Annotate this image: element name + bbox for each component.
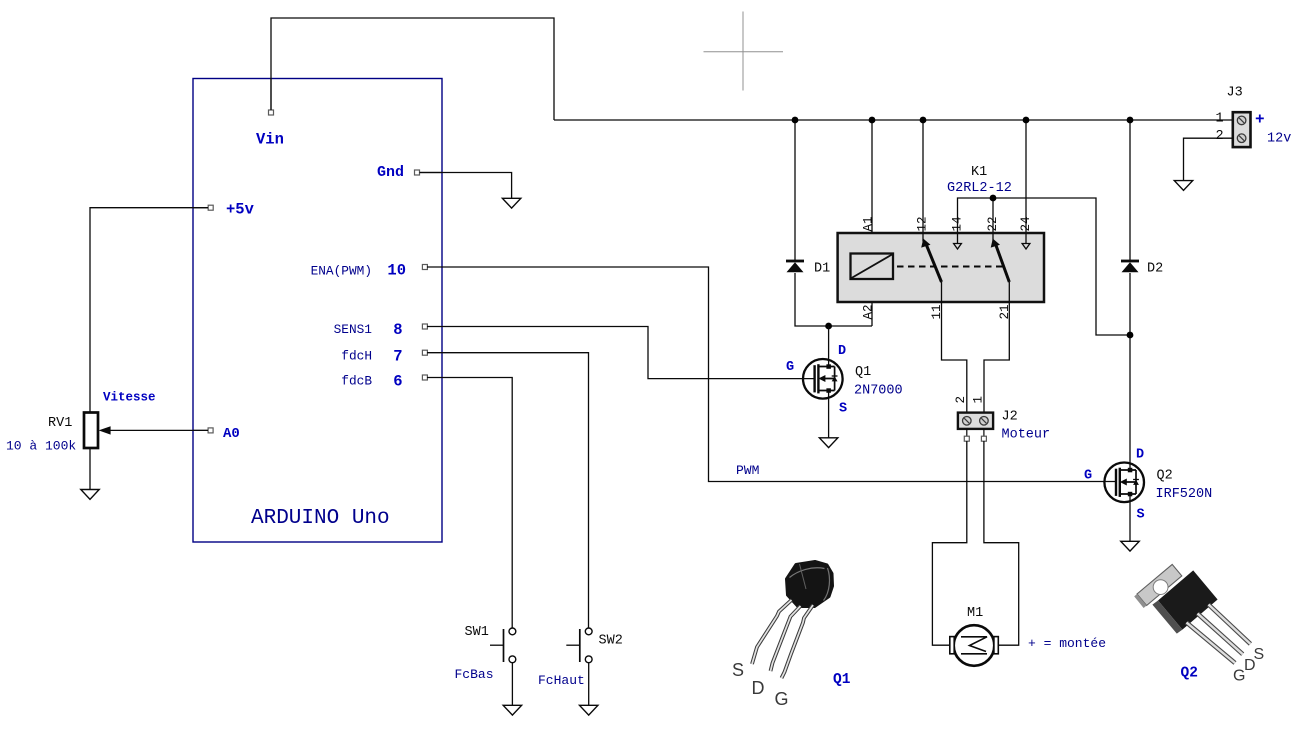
junction pin22 net xyxy=(990,195,997,202)
relay K1 contact 1 blade xyxy=(921,233,941,282)
diode D1 xyxy=(786,260,830,277)
svg-text:Gnd: Gnd xyxy=(377,164,404,181)
svg-text:D: D xyxy=(838,344,846,359)
junction D2 Q2 node xyxy=(1127,332,1134,339)
relay K1 coil xyxy=(851,254,894,280)
svg-text:G: G xyxy=(1084,469,1092,484)
wire D2 anode to Q2 drain xyxy=(1129,273,1131,470)
pin Vin xyxy=(256,79,284,149)
wire pin8 SENS1 to Q1 gate xyxy=(427,327,815,379)
svg-text:6: 6 xyxy=(393,372,402,390)
relay K1 pin labels A2 11 21 xyxy=(862,304,1013,319)
svg-text:J3: J3 xyxy=(1227,86,1243,101)
svg-text:Q2: Q2 xyxy=(1157,469,1173,484)
svg-text:Vitesse: Vitesse xyxy=(103,391,156,405)
ground at J3 xyxy=(1174,181,1192,191)
svg-text:IRF520N: IRF520N xyxy=(1156,487,1213,502)
svg-text:SW1: SW1 xyxy=(465,625,489,640)
junction rail pin24 xyxy=(1023,117,1030,124)
svg-text:G: G xyxy=(786,360,794,375)
svg-text:D: D xyxy=(752,678,765,698)
wire pin12 to rail xyxy=(922,120,924,233)
svg-text:24: 24 xyxy=(1019,216,1033,231)
wire J2 pin1 to motor right xyxy=(984,441,1019,645)
switch SW2 xyxy=(538,628,623,688)
wire pin21 to J2 pin1 xyxy=(984,282,1009,413)
ground at RV1 xyxy=(81,490,99,500)
svg-text:S: S xyxy=(839,402,847,417)
relay K1 pin24 NO terminal xyxy=(1022,233,1030,249)
svg-text:G2RL2-12: G2RL2-12 xyxy=(947,181,1012,196)
svg-text:G: G xyxy=(775,689,789,709)
transistor Q2 TO-220 package picture xyxy=(1134,564,1264,684)
svg-text:S: S xyxy=(1137,508,1145,523)
svg-text:+ = montée: + = montée xyxy=(1028,636,1106,651)
wire J3 pin2 to ground xyxy=(1184,138,1233,180)
pin 6 fdcB xyxy=(341,372,427,390)
wire Gnd pin to ground xyxy=(420,173,512,199)
relay K1 contact 2 blade xyxy=(991,233,1010,282)
svg-text:2: 2 xyxy=(1216,129,1224,144)
wire A0 to RV1 wiper xyxy=(110,429,208,431)
svg-text:SENS1: SENS1 xyxy=(334,322,373,337)
svg-text:M1: M1 xyxy=(967,606,983,621)
junction rail D2 xyxy=(1127,117,1134,124)
svg-text:ENA(PWM): ENA(PWM) xyxy=(311,264,372,279)
wire pin10 ENA to PWM line xyxy=(427,267,1116,482)
svg-text:FcBas: FcBas xyxy=(455,667,494,682)
wire A1 from rail to relay coil xyxy=(871,120,873,254)
wire Q1 drain xyxy=(828,326,830,367)
relay K1 pin labels A1 12 14 22 24 xyxy=(862,216,1034,231)
svg-text:Q1: Q1 xyxy=(855,365,871,380)
wire pin6 fdcB to SW1 xyxy=(427,378,512,629)
pin 10 ENA(PWM) xyxy=(311,262,428,280)
crosshair origin marker xyxy=(704,12,784,91)
junction rail D1 xyxy=(792,117,799,124)
wire +12V rail xyxy=(554,119,1233,121)
svg-text:Q2: Q2 xyxy=(1181,666,1198,682)
svg-text:J2: J2 xyxy=(1002,410,1018,425)
svg-text:A1: A1 xyxy=(862,216,876,231)
svg-text:A2: A2 xyxy=(862,304,876,319)
pin A0 xyxy=(193,426,240,442)
svg-text:D: D xyxy=(1136,448,1144,463)
pin 8 SENS1 xyxy=(334,321,428,339)
relay K1 dashed actuator line xyxy=(897,266,1004,268)
svg-text:2: 2 xyxy=(954,396,968,404)
svg-text:S: S xyxy=(1254,646,1265,663)
svg-text:Moteur: Moteur xyxy=(1002,428,1051,443)
wire pin24 to rail xyxy=(1025,120,1027,233)
svg-text:8: 8 xyxy=(393,321,402,339)
svg-text:10 à 100k: 10 à 100k xyxy=(6,439,76,454)
wire +5v to RV1 xyxy=(90,208,208,413)
relay K1 pin14 NO terminal xyxy=(954,233,962,249)
ground at Q2 source xyxy=(1121,541,1139,551)
svg-text:14: 14 xyxy=(951,216,965,231)
svg-text:PWM: PWM xyxy=(736,463,759,478)
pin +5v xyxy=(193,201,255,219)
wire A2 relay coil to node xyxy=(871,279,873,326)
transistor Q2 IRF520N xyxy=(1084,448,1212,523)
svg-text:2N7000: 2N7000 xyxy=(854,384,903,399)
wire D1 anode to A2 node xyxy=(795,273,872,326)
svg-text:1: 1 xyxy=(972,396,986,404)
svg-text:FcHaut: FcHaut xyxy=(538,673,585,688)
transistor Q1 TO-92 package picture xyxy=(732,562,851,710)
svg-text:A0: A0 xyxy=(223,426,240,442)
wire J2 pin2 to motor left xyxy=(932,441,966,645)
connector J2 Moteur xyxy=(954,396,1050,443)
svg-text:ARDUINO Uno: ARDUINO Uno xyxy=(251,507,390,530)
wire SW1 to ground xyxy=(511,663,513,705)
junction Q1 drain node xyxy=(825,323,832,330)
wire Q2 source to ground xyxy=(1129,494,1131,541)
svg-text:12: 12 xyxy=(916,216,930,231)
wire pin22 up xyxy=(992,198,994,233)
ground at SW1 xyxy=(503,705,521,715)
ground at Arduino Gnd xyxy=(502,198,520,208)
svg-text:fdcB: fdcB xyxy=(341,373,372,388)
junction rail pin12 xyxy=(920,117,927,124)
pin 7 fdcH xyxy=(341,348,427,366)
wire pin11 to J2 pin2 xyxy=(942,282,967,413)
diode D2 xyxy=(1121,260,1163,277)
svg-text:10: 10 xyxy=(387,262,406,280)
ground at Q1 source xyxy=(819,438,837,448)
svg-text:+: + xyxy=(1255,111,1265,129)
wire RV1 to ground xyxy=(89,448,91,490)
wire pin7 fdcH to SW2 xyxy=(427,353,589,628)
wire Q1 source to ground xyxy=(828,391,830,438)
op-amp U1 ARDUINO Uno body xyxy=(193,79,442,543)
svg-text:D2: D2 xyxy=(1147,262,1163,277)
svg-text:D1: D1 xyxy=(814,262,830,277)
svg-text:fdcH: fdcH xyxy=(341,349,372,364)
junction rail A1 xyxy=(869,117,876,124)
svg-text:S: S xyxy=(732,660,744,680)
motor M1 xyxy=(950,606,999,666)
wire rail to D1 cathode xyxy=(794,120,796,260)
svg-text:Q1: Q1 xyxy=(833,672,851,688)
connector J3 12v xyxy=(1216,86,1292,148)
wire rail to D2 cathode xyxy=(1129,120,1131,260)
svg-text:+5v: +5v xyxy=(226,201,255,219)
switch SW1 xyxy=(455,625,516,682)
transistor Q1 2N7000 xyxy=(786,344,903,417)
svg-text:K1: K1 xyxy=(971,165,987,180)
svg-text:Vin: Vin xyxy=(256,131,284,149)
pin Gnd xyxy=(377,164,442,181)
wire SW2 to ground xyxy=(588,663,590,705)
svg-text:RV1: RV1 xyxy=(48,416,72,431)
ground at SW2 xyxy=(580,705,598,715)
svg-text:1: 1 xyxy=(1216,112,1224,127)
relay K1 body xyxy=(838,165,1044,302)
wire Vin to +12V rail xyxy=(271,18,554,120)
svg-text:12v: 12v xyxy=(1267,132,1291,147)
svg-text:7: 7 xyxy=(393,348,402,366)
resistor RV1 potentiometer xyxy=(6,391,156,454)
svg-text:22: 22 xyxy=(986,216,1000,231)
svg-text:SW2: SW2 xyxy=(599,634,623,649)
wire pin14 pin22 to D2 anode node xyxy=(958,198,1131,335)
